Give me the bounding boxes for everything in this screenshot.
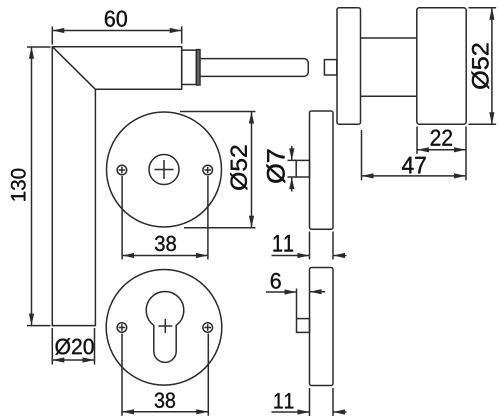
lever elbow diagonal xyxy=(52,47,95,90)
lever spindle rod xyxy=(201,59,309,77)
dim 60 line xyxy=(52,27,181,45)
arrows O20 xyxy=(52,357,64,362)
label O52 right xyxy=(472,43,489,89)
label 22 xyxy=(431,130,452,146)
lever neck collar xyxy=(182,50,197,84)
upper rosette left screw xyxy=(117,165,127,175)
lever ring washer xyxy=(197,50,200,85)
lower rosette side view xyxy=(310,268,334,386)
arrows 38 upper xyxy=(122,253,134,258)
knob grip xyxy=(417,8,466,125)
knob neck xyxy=(361,38,417,96)
dim O20 line xyxy=(52,328,94,365)
label O20 xyxy=(55,338,93,354)
dim 38 lower line xyxy=(122,334,208,416)
label 38 upper xyxy=(155,236,176,251)
label O7 xyxy=(267,150,286,183)
arrows 11 upper xyxy=(298,253,310,258)
label O52 mid xyxy=(230,145,247,190)
dim O52 right line xyxy=(469,8,497,125)
label 60 xyxy=(105,11,127,27)
upper rosette hub circle xyxy=(149,155,179,185)
keyhole cross xyxy=(158,319,172,333)
arrows O52 mid xyxy=(249,112,254,124)
dim 6 line xyxy=(266,289,325,319)
lever handle outline (side view) xyxy=(52,47,181,326)
label 38 lower xyxy=(155,393,175,408)
dim 11 upper line xyxy=(272,232,347,260)
dim O52 mid line xyxy=(180,112,256,228)
upper side spindle stub xyxy=(296,160,309,177)
dim 11 lower line xyxy=(272,388,347,416)
arrows 60 xyxy=(52,28,64,33)
upper rosette right screw xyxy=(203,165,213,175)
lower rosette right screw xyxy=(203,323,213,333)
keyhole euro profile xyxy=(146,292,184,363)
dim O7 lines xyxy=(288,146,297,192)
lower rosette left screw xyxy=(117,323,127,333)
dim 22 line xyxy=(417,127,466,181)
label 6 xyxy=(271,273,281,289)
upper rosette circle xyxy=(107,112,222,227)
arrows 11 lower xyxy=(298,409,310,414)
label 47 xyxy=(402,157,426,173)
upper rosette hub cross xyxy=(155,160,174,179)
label 11 lower xyxy=(274,393,293,408)
lower side cylinder stub xyxy=(297,319,310,333)
label 130 xyxy=(11,169,26,201)
dim 38 upper line xyxy=(122,176,208,260)
label 11 upper xyxy=(274,235,293,251)
arrows O7 xyxy=(289,148,294,160)
arrows 22 xyxy=(417,147,429,152)
arrows 38 lower xyxy=(122,409,134,414)
arrows 130 xyxy=(29,47,34,59)
arrows 47 xyxy=(362,173,374,178)
arrows O52 right xyxy=(489,8,494,20)
knob spindle square xyxy=(324,60,336,75)
arrows 6 xyxy=(285,289,297,294)
knob rosette side view xyxy=(337,8,361,125)
dim 130 line xyxy=(27,47,51,326)
dim 47 line xyxy=(362,130,467,180)
upper rosette side view xyxy=(310,111,334,229)
lower rosette circle xyxy=(106,270,222,386)
